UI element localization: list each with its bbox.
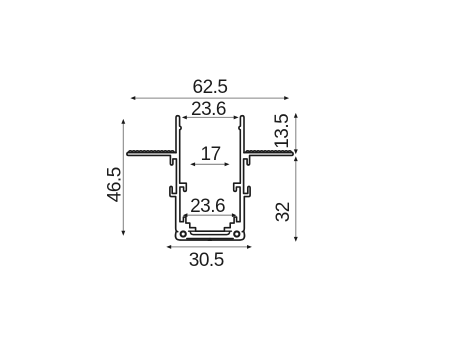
center bottom rib <box>208 239 211 241</box>
dim line 46.5 left <box>122 121 124 235</box>
svg-text:46.5: 46.5 <box>105 167 126 202</box>
arrows 23.6 top <box>182 115 187 119</box>
arrows 46.5 <box>121 119 125 124</box>
dim line 30.5 bottom <box>168 246 251 248</box>
svg-text:17: 17 <box>201 144 221 165</box>
svg-text:30.5: 30.5 <box>189 250 224 271</box>
arrows 23.6 lower <box>183 213 188 217</box>
svg-text:23.6: 23.6 <box>191 99 226 120</box>
dim line 17 <box>192 163 228 165</box>
dim line 32 right <box>295 158 297 241</box>
arrows 32 <box>294 156 298 161</box>
svg-text:32: 32 <box>273 202 294 222</box>
arrows 17 <box>190 162 195 166</box>
floor U channel center <box>190 231 229 234</box>
dim line 62.5 <box>132 97 288 99</box>
arrows 62.5 <box>130 96 135 100</box>
dim line 23.6 top <box>184 116 238 118</box>
svg-text:13.5: 13.5 <box>272 114 293 149</box>
dim line 13.5 right <box>295 115 297 153</box>
svg-text:23.6: 23.6 <box>190 196 225 217</box>
floor ledge band line <box>189 230 232 232</box>
dim line 23.6 lower <box>184 214 235 216</box>
svg-text:62.5: 62.5 <box>193 77 228 98</box>
arrows 13.5 <box>294 113 298 118</box>
arrows 30.5 <box>166 245 171 249</box>
